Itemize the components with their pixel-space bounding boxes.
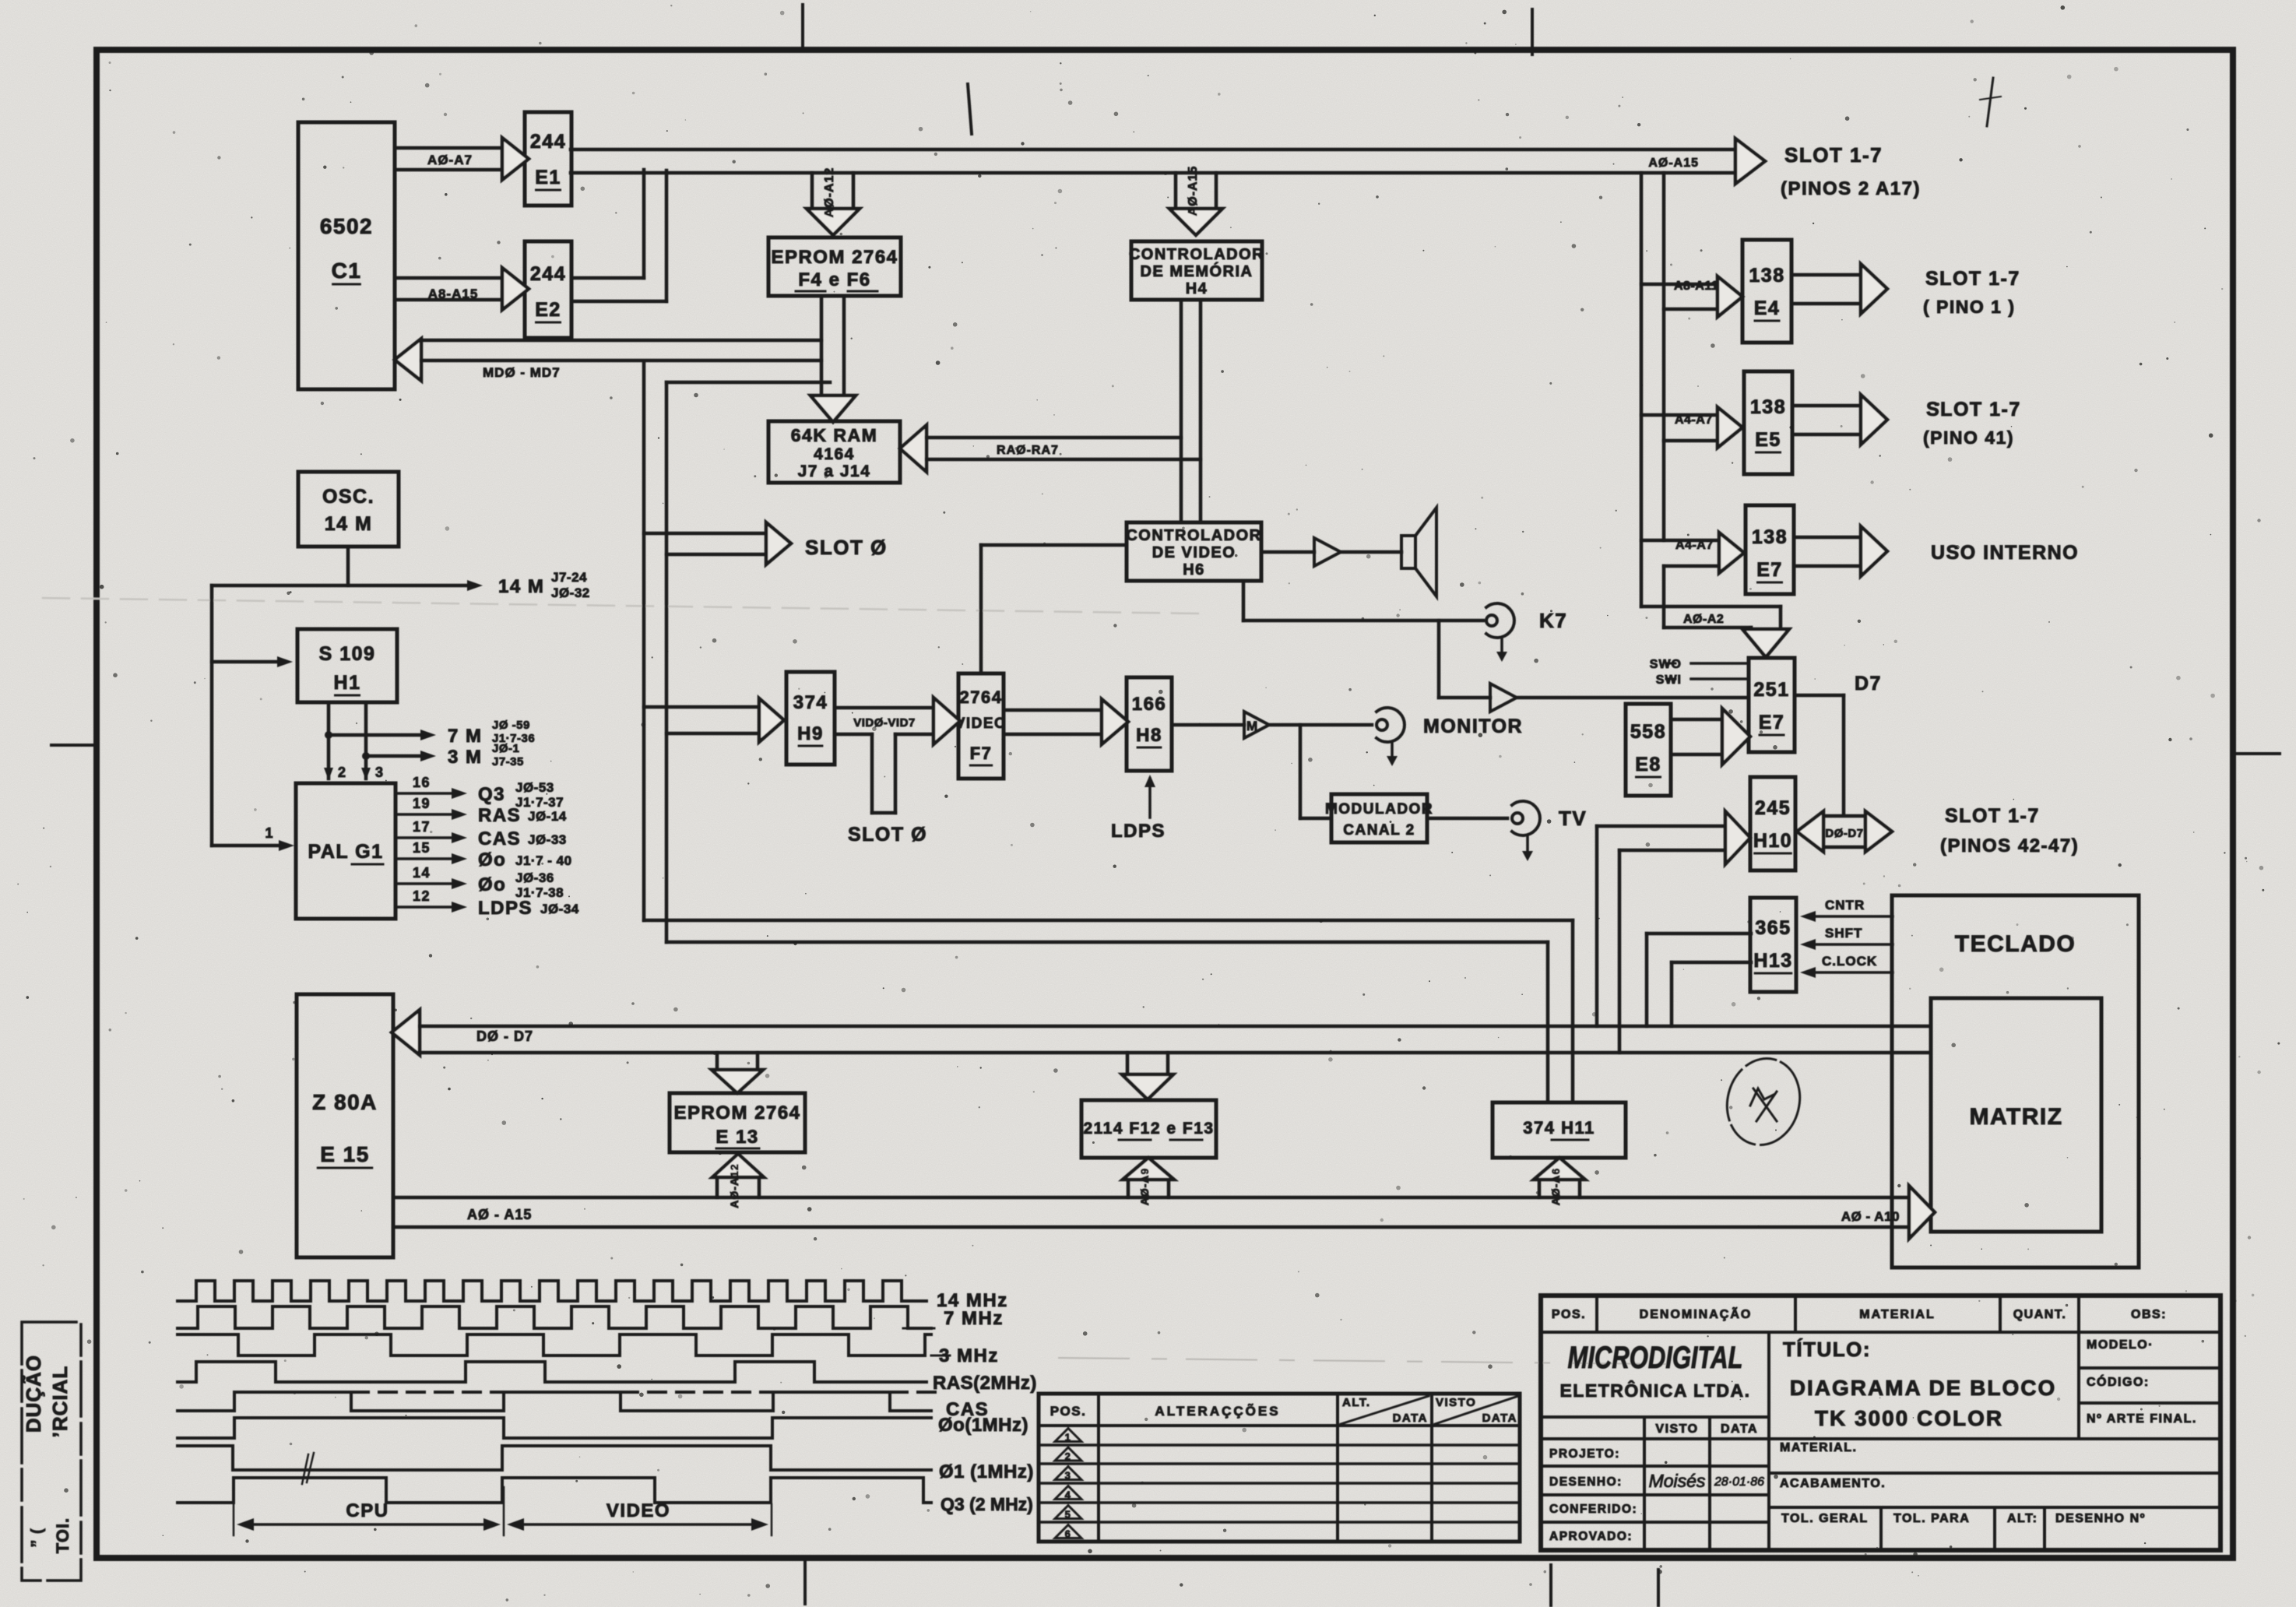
bus F7 to H8 bbox=[1004, 709, 1102, 712]
transceiver 245 H10 bbox=[1750, 777, 1795, 870]
ram 64K 4164 J7-J14 bbox=[768, 421, 900, 483]
svg-text:H10: H10 bbox=[1753, 830, 1792, 852]
svg-text:CONTROLADOR: CONTROLADOR bbox=[1129, 246, 1264, 263]
vertical pair lower bbox=[1662, 566, 1666, 628]
bus A8-A15 6502 to E2 bbox=[395, 276, 502, 280]
svg-text:” (: ” ( bbox=[29, 1528, 46, 1547]
timer 558 E8 bbox=[1626, 704, 1671, 796]
svg-text:EPROM 2764: EPROM 2764 bbox=[673, 1102, 800, 1123]
svg-text:MATERIAL.: MATERIAL. bbox=[1780, 1441, 1857, 1454]
buffer 244 E2 bbox=[525, 241, 571, 338]
waveform RAS bbox=[178, 1362, 926, 1382]
wire amp to 251 bbox=[1517, 696, 1749, 700]
decoder 138 E7 bbox=[1746, 505, 1794, 594]
svg-text:JØ-33: JØ-33 bbox=[528, 832, 567, 847]
svg-text:E5: E5 bbox=[1755, 429, 1781, 451]
wire amp to speaker bbox=[1341, 550, 1401, 554]
waveform Phi1 bbox=[178, 1446, 931, 1470]
pal output RAS pin 19 bbox=[396, 813, 455, 816]
svg-text:E7: E7 bbox=[1756, 559, 1783, 581]
vertical pair continue bbox=[1662, 441, 1666, 540]
svg-text:DØ - D7: DØ - D7 bbox=[476, 1029, 533, 1044]
alteracoes row 2 triangle bbox=[1055, 1447, 1081, 1461]
svg-text:138: 138 bbox=[1752, 526, 1788, 548]
svg-text:RAS: RAS bbox=[478, 805, 521, 826]
wire D7 from 251 bbox=[1795, 694, 1844, 698]
svg-text:D7: D7 bbox=[1855, 673, 1882, 694]
svg-text:E7: E7 bbox=[1759, 712, 1785, 733]
svg-text:AØ-A7: AØ-A7 bbox=[427, 153, 473, 167]
arrow data into 2114 bbox=[1126, 1053, 1130, 1074]
scan streak right of 3MHz bbox=[1059, 1358, 1666, 1364]
dimension CPU bbox=[248, 1523, 490, 1526]
svg-text:Nº ARTE FINAL.: Nº ARTE FINAL. bbox=[2087, 1412, 2197, 1426]
svg-text:VIDEO: VIDEO bbox=[607, 1500, 670, 1521]
svg-text:ACABAMENTO.: ACABAMENTO. bbox=[1780, 1477, 1886, 1490]
wire K7 branch to amp bbox=[1437, 621, 1441, 698]
svg-text:3 M: 3 M bbox=[448, 747, 483, 768]
svg-text:7 MHz: 7 MHz bbox=[944, 1308, 1004, 1329]
decoder 138 E4 bbox=[1742, 240, 1791, 343]
svg-text:H4: H4 bbox=[1186, 280, 1208, 297]
wire S109 pin3 down bbox=[364, 702, 368, 779]
wire modulador to TV bbox=[1427, 817, 1507, 821]
svg-text:DESENHO Nº: DESENHO Nº bbox=[2055, 1512, 2146, 1525]
svg-text:14 M: 14 M bbox=[325, 513, 373, 535]
ram 2114 F12 e F13 bbox=[1081, 1100, 1216, 1158]
slot0 stub below video bus bbox=[870, 734, 874, 813]
svg-text:2: 2 bbox=[338, 765, 347, 780]
svg-text:MATERIAL: MATERIAL bbox=[1859, 1308, 1935, 1321]
svg-text:2114 F12 e F13: 2114 F12 e F13 bbox=[1083, 1120, 1214, 1138]
svg-text:TOI.: TOI. bbox=[53, 1517, 72, 1553]
svg-text:365: 365 bbox=[1755, 917, 1791, 939]
svg-text:CÓDIGO:: CÓDIGO: bbox=[2087, 1374, 2150, 1389]
hand drawn X circle bbox=[1718, 1051, 1809, 1153]
arrow E4 outputs bbox=[1791, 273, 1861, 277]
svg-text:( PINO 1 ): ( PINO 1 ) bbox=[1923, 297, 2016, 317]
svg-text:MONITOR: MONITOR bbox=[1423, 716, 1523, 737]
svg-text:AØ-A15: AØ-A15 bbox=[1648, 156, 1699, 170]
svg-text:E 13: E 13 bbox=[716, 1127, 758, 1148]
centering tick bottom-left bbox=[803, 1560, 807, 1604]
monitor ground bbox=[1391, 743, 1394, 760]
svg-text:ALT:: ALT: bbox=[2007, 1512, 2038, 1525]
junction dots on S109 outputs bbox=[325, 731, 332, 739]
K7 connector bbox=[1486, 603, 1514, 638]
pal output Øo pin 15 bbox=[396, 857, 455, 860]
svg-text:AØ - A10: AØ - A10 bbox=[1841, 1209, 1900, 1224]
svg-text:SHFT: SHFT bbox=[1825, 926, 1862, 941]
svg-text:H9: H9 bbox=[797, 723, 824, 744]
pal output LDPS pin 12 bbox=[396, 905, 455, 909]
svg-text:JØ-32: JØ-32 bbox=[551, 585, 590, 600]
svg-text:H6: H6 bbox=[1183, 561, 1205, 578]
svg-text:2: 2 bbox=[1065, 1451, 1072, 1462]
svg-text:H13: H13 bbox=[1753, 950, 1792, 972]
latch 374 H11 bbox=[1493, 1102, 1626, 1158]
alteracoes header VISTO DATA bbox=[1435, 1396, 1518, 1424]
svg-text:(PINOS 2 A17): (PINOS 2 A17) bbox=[1781, 178, 1921, 199]
speaker symbol bbox=[1401, 536, 1415, 568]
svg-text:558: 558 bbox=[1630, 721, 1666, 743]
svg-text:C1: C1 bbox=[332, 258, 362, 283]
svg-text:E 15: E 15 bbox=[320, 1142, 370, 1166]
wire H6 to speaker amp bbox=[1261, 550, 1314, 554]
svg-text:OBS:: OBS: bbox=[2131, 1308, 2167, 1321]
svg-text:3 MHz: 3 MHz bbox=[939, 1345, 999, 1366]
svg-text:TECLADO: TECLADO bbox=[1955, 931, 2076, 957]
E2 to bus link bbox=[571, 276, 644, 280]
centering tick top-left bbox=[801, 5, 804, 48]
svg-text:374 H11: 374 H11 bbox=[1523, 1118, 1595, 1138]
svg-text:DUÇÃO: DUÇÃO bbox=[22, 1355, 45, 1433]
svg-text:LDPS: LDPS bbox=[1111, 821, 1166, 842]
svg-text:PROJETO:: PROJETO: bbox=[1549, 1447, 1620, 1461]
bus MD0-MD7 into 6502 bbox=[395, 339, 421, 381]
svg-text:Q3 (2 MHz): Q3 (2 MHz) bbox=[941, 1494, 1033, 1514]
svg-text:S 109: S 109 bbox=[319, 643, 376, 665]
svg-text:DENOMINAÇÃO: DENOMINAÇÃO bbox=[1640, 1306, 1753, 1321]
svg-text:244: 244 bbox=[530, 131, 566, 153]
arrow into H9 bbox=[644, 705, 759, 709]
buffer 365 H13 bbox=[1750, 898, 1796, 992]
wire 3M out bbox=[366, 754, 424, 758]
svg-text:E1: E1 bbox=[535, 167, 561, 188]
waveform 14MHz bbox=[178, 1281, 926, 1301]
svg-text:7 M: 7 M bbox=[448, 726, 483, 747]
alteracoes row 3 triangle bbox=[1055, 1467, 1081, 1480]
alteracoes header ALT DATA bbox=[1341, 1396, 1429, 1424]
alteracoes row 4 triangle bbox=[1055, 1486, 1081, 1500]
svg-text:3: 3 bbox=[375, 765, 385, 780]
wire H4 down to H6 bbox=[1180, 300, 1183, 522]
svg-text:VIDEO: VIDEO bbox=[955, 716, 1007, 732]
svg-text:SLOT Ø: SLOT Ø bbox=[848, 824, 927, 846]
underline H11 bbox=[1552, 1139, 1588, 1141]
wire S109 pin2 down bbox=[327, 702, 331, 779]
svg-text:RAØ-RA7: RAØ-RA7 bbox=[997, 444, 1059, 457]
wire 14M distribution bbox=[212, 584, 473, 588]
pal G1 bbox=[296, 783, 396, 919]
waveform Q3 bbox=[178, 1478, 931, 1503]
svg-text:15: 15 bbox=[413, 840, 431, 856]
svg-text:RAS(2MHz): RAS(2MHz) bbox=[933, 1373, 1037, 1394]
CAS dashed level bbox=[351, 1391, 504, 1394]
monitor connector bbox=[1377, 708, 1405, 742]
svg-text:TV: TV bbox=[1559, 807, 1587, 830]
bus vertical to H13 b bbox=[1670, 962, 1674, 1026]
label RAS bbox=[895, 1381, 926, 1384]
svg-text:A4-A7: A4-A7 bbox=[1675, 539, 1714, 552]
underline F4 bbox=[796, 290, 825, 293]
svg-text:AØ-A6: AØ-A6 bbox=[1549, 1168, 1562, 1206]
svg-text:JØ-1: JØ-1 bbox=[492, 742, 519, 755]
svg-text:OSC.: OSC. bbox=[322, 486, 374, 508]
underline G1 bbox=[352, 863, 383, 866]
waveform CAS bbox=[178, 1392, 931, 1411]
arrow LDPS into H8 bbox=[1148, 779, 1152, 818]
svg-text:SLOT 1-7: SLOT 1-7 bbox=[1926, 399, 2021, 420]
bus vertical to H10 left bbox=[1595, 826, 1599, 1026]
bus RA0-RA7 H4 to RAM bbox=[900, 425, 926, 472]
svg-text:DØ-D7: DØ-D7 bbox=[1825, 827, 1863, 840]
stub to E7 138 bbox=[1641, 539, 1719, 543]
svg-text:MODELO·: MODELO· bbox=[2087, 1338, 2154, 1352]
latch 374 H9 bbox=[786, 672, 835, 765]
arrow E5 outputs bbox=[1792, 404, 1861, 408]
keyboard TECLADO bbox=[1892, 895, 2139, 1268]
pal output CAS pin 17 bbox=[396, 836, 455, 839]
arrow data into E13 bbox=[716, 1053, 719, 1070]
svg-text:4: 4 bbox=[1065, 1489, 1072, 1501]
svg-text:12: 12 bbox=[413, 888, 431, 904]
shift register 166 H8 bbox=[1127, 677, 1172, 771]
data bus top line bbox=[420, 1025, 1931, 1029]
dimension guides bbox=[233, 1504, 235, 1535]
svg-text:244: 244 bbox=[530, 263, 566, 285]
svg-text:AØ - A15: AØ - A15 bbox=[467, 1207, 532, 1222]
speaker amp triangle bbox=[1314, 538, 1341, 566]
svg-text:PAL G1: PAL G1 bbox=[308, 841, 384, 863]
svg-text:1: 1 bbox=[265, 825, 274, 841]
svg-text:VISTO: VISTO bbox=[1655, 1422, 1698, 1436]
svg-text:2764: 2764 bbox=[960, 687, 1003, 707]
centering tick top-right bbox=[1531, 9, 1534, 55]
decoder 138 E5 bbox=[1744, 371, 1792, 474]
svg-text:AØ-A2: AØ-A2 bbox=[1683, 613, 1724, 626]
svg-text:16: 16 bbox=[413, 775, 431, 790]
label 3MHz bbox=[931, 1355, 950, 1357]
svg-text:TÍTULO:: TÍTULO: bbox=[1783, 1338, 1871, 1361]
eprom 2764 F4 e F6 bbox=[768, 237, 901, 296]
underline F12 F13 bbox=[1119, 1139, 1151, 1141]
svg-text:CNTR: CNTR bbox=[1825, 898, 1865, 913]
cpu Z80A E15 bbox=[297, 994, 393, 1257]
svg-text:EPROM 2764: EPROM 2764 bbox=[771, 247, 898, 268]
svg-text:E4: E4 bbox=[1754, 297, 1781, 319]
data bus bottom line bbox=[420, 1051, 1931, 1055]
svg-text:JØ-36: JØ-36 bbox=[515, 870, 554, 885]
svg-text:MDØ - MD7: MDØ - MD7 bbox=[483, 365, 561, 380]
svg-text:14: 14 bbox=[413, 865, 431, 881]
svg-text:APROVADO:: APROVADO: bbox=[1549, 1530, 1633, 1543]
svg-text:USO INTERNO: USO INTERNO bbox=[1931, 542, 2079, 564]
svg-text:138: 138 bbox=[1750, 396, 1786, 418]
wire OSC to 14M line bbox=[346, 547, 350, 585]
pen mark near Q3 bbox=[302, 1454, 308, 1484]
wire into S109 bbox=[212, 660, 282, 664]
amp M triangle bbox=[1244, 712, 1269, 738]
title block grid bbox=[1541, 1296, 2220, 1550]
arrow A0-A15 into H4 bbox=[1174, 173, 1178, 209]
keyboard SHFT line bbox=[1809, 943, 1893, 946]
SW1 input bbox=[1691, 677, 1749, 680]
svg-text:SLOT 1-7: SLOT 1-7 bbox=[1925, 268, 2020, 290]
svg-text:17: 17 bbox=[413, 819, 431, 835]
tv connector bbox=[1512, 801, 1540, 835]
tv ground bbox=[1526, 836, 1529, 855]
left loop vertical V1 bbox=[642, 170, 646, 278]
svg-text:AØ-A9: AØ-A9 bbox=[1138, 1168, 1151, 1206]
underline E13 bbox=[716, 1148, 759, 1150]
svg-text:VISTO: VISTO bbox=[1436, 1396, 1476, 1409]
svg-text:A8-A15: A8-A15 bbox=[428, 287, 479, 301]
data bus Z80 arrow bbox=[392, 1010, 420, 1055]
svg-text:Q3: Q3 bbox=[478, 784, 505, 805]
svg-text:E8: E8 bbox=[1635, 754, 1661, 775]
svg-text:CONFERIDO:: CONFERIDO: bbox=[1549, 1503, 1637, 1516]
svg-text:Moisés: Moisés bbox=[1649, 1471, 1706, 1491]
arrow A0-A12 into EPROM F4 bbox=[810, 173, 814, 209]
svg-text:J7 a J14: J7 a J14 bbox=[798, 462, 871, 480]
bus left loop bottom bbox=[644, 919, 1573, 923]
wire left vertical to S109 and PAL bbox=[210, 585, 214, 846]
svg-text:(PINOS 42-47): (PINOS 42-47) bbox=[1940, 835, 2079, 856]
svg-text:Z 80A: Z 80A bbox=[312, 1090, 378, 1114]
svg-text:5: 5 bbox=[1065, 1509, 1072, 1521]
label 7MHz bbox=[903, 1327, 934, 1330]
svg-text:ELETRÔNICA LTDA.: ELETRÔNICA LTDA. bbox=[1559, 1380, 1750, 1401]
addr drop vertical pair bbox=[1640, 173, 1644, 607]
stub to E5 bbox=[1641, 413, 1718, 417]
svg-text:M: M bbox=[1246, 719, 1257, 733]
svg-text:F7: F7 bbox=[970, 744, 993, 763]
svg-text:J7-24: J7-24 bbox=[551, 570, 587, 585]
svg-text:AØ-A15: AØ-A15 bbox=[1187, 166, 1200, 216]
waveform Phi0 bbox=[178, 1418, 931, 1438]
fold artifact line bbox=[43, 598, 1199, 614]
svg-text:DE VIDEO: DE VIDEO bbox=[1152, 544, 1236, 561]
svg-text:Øo(1MHz): Øo(1MHz) bbox=[938, 1415, 1028, 1436]
waveform 3MHz bbox=[178, 1334, 931, 1356]
arrow into H10 bbox=[1597, 825, 1725, 828]
svg-text:J1·7 - 40: J1·7 - 40 bbox=[515, 853, 572, 868]
svg-text:CPU: CPU bbox=[346, 1500, 389, 1521]
svg-text:DESENHO:: DESENHO: bbox=[1549, 1475, 1623, 1489]
svg-text:Øo: Øo bbox=[478, 849, 506, 870]
svg-text:JØ-53: JØ-53 bbox=[515, 780, 554, 795]
svg-text:J7-35: J7-35 bbox=[492, 755, 524, 768]
alteracoes row 1 triangle bbox=[1055, 1429, 1081, 1442]
svg-text:’RCIAL: ’RCIAL bbox=[48, 1366, 72, 1438]
svg-text:166: 166 bbox=[1132, 694, 1167, 715]
oscillator OSC 14M bbox=[298, 472, 399, 547]
elbow A0-A2 into 251 bbox=[1641, 605, 1781, 609]
svg-text:SLOT 1-7: SLOT 1-7 bbox=[1945, 805, 2040, 827]
pal output Øo pin 14 bbox=[396, 882, 455, 885]
svg-text:JØ -59: JØ -59 bbox=[492, 719, 530, 732]
wire H6 to K7 bbox=[1242, 581, 1246, 621]
svg-text:DIAGRAMA DE BLOCO: DIAGRAMA DE BLOCO bbox=[1790, 1376, 2057, 1400]
divider S109 H1 bbox=[297, 629, 397, 702]
svg-text:64K RAM: 64K RAM bbox=[791, 425, 877, 445]
wire M to monitor bbox=[1269, 723, 1372, 727]
wire to modulador bbox=[1299, 725, 1303, 818]
K7 ground bbox=[1500, 638, 1503, 656]
svg-text:DE MEMÓRIA: DE MEMÓRIA bbox=[1141, 262, 1253, 280]
top address bus line lower bbox=[571, 171, 1735, 175]
cpu 6502 C1 bbox=[298, 122, 395, 389]
eprom 2764 E13 bbox=[670, 1093, 805, 1152]
wire F7 top to H6 bbox=[979, 545, 983, 673]
svg-text:MODULADOR: MODULADOR bbox=[1325, 801, 1433, 818]
arrow A0-A9 into 2114 bbox=[1127, 1180, 1130, 1197]
wire 7M out bbox=[329, 733, 424, 737]
svg-text:H8: H8 bbox=[1136, 725, 1162, 746]
bus bottom to H11 bbox=[1546, 942, 1550, 1102]
alteracoes row 6 triangle bbox=[1055, 1525, 1081, 1538]
svg-text:AØ-A12: AØ-A12 bbox=[823, 167, 836, 218]
wire H8 to M amp bbox=[1172, 723, 1244, 727]
svg-text:MATRIZ: MATRIZ bbox=[1969, 1104, 2062, 1130]
svg-text:SLOT 1-7: SLOT 1-7 bbox=[1784, 143, 1883, 167]
svg-text:(PINO 41): (PINO 41) bbox=[1923, 427, 2014, 448]
svg-text:28·01·86: 28·01·86 bbox=[1714, 1475, 1764, 1489]
svg-text:ALTERAÇÇÕES: ALTERAÇÇÕES bbox=[1155, 1403, 1280, 1419]
svg-text:TK 3000 COLOR: TK 3000 COLOR bbox=[1815, 1406, 2003, 1430]
margin stamp box bbox=[22, 1322, 81, 1581]
svg-text:Ø1 (1MHz): Ø1 (1MHz) bbox=[939, 1461, 1034, 1482]
svg-text:AØ-A12: AØ-A12 bbox=[728, 1163, 740, 1208]
svg-text:1: 1 bbox=[1065, 1432, 1072, 1443]
dimension VIDEO bbox=[518, 1523, 758, 1526]
arrow A0-A6 into H11 bbox=[1538, 1180, 1542, 1197]
svg-text:6: 6 bbox=[1065, 1528, 1072, 1540]
svg-text:ALT.: ALT. bbox=[1342, 1396, 1371, 1409]
stray pen mark top-right bbox=[1987, 78, 1993, 126]
svg-text:A8-A11: A8-A11 bbox=[1674, 280, 1718, 293]
underline J7 J14 bbox=[802, 481, 829, 484]
bus A0-A7 6502 to E1 bbox=[395, 146, 502, 150]
SW0 input bbox=[1691, 662, 1749, 665]
svg-text:H1: H1 bbox=[334, 672, 361, 694]
svg-text:J1·7-37: J1·7-37 bbox=[515, 795, 564, 810]
video eprom 2764 F7 bbox=[958, 673, 1004, 779]
cassette amp triangle bbox=[1490, 684, 1517, 712]
svg-text:JØ-14: JØ-14 bbox=[528, 809, 567, 824]
keyboard CNTR line bbox=[1809, 915, 1893, 918]
svg-text:TOL. GERAL: TOL. GERAL bbox=[1781, 1512, 1869, 1525]
svg-text:MICRODIGITAL: MICRODIGITAL bbox=[1568, 1341, 1743, 1375]
modulator canal 2 bbox=[1331, 794, 1427, 842]
svg-text:POS.: POS. bbox=[1050, 1404, 1087, 1419]
memory controller H4 bbox=[1131, 241, 1262, 300]
addr bus top line bbox=[393, 1196, 1909, 1200]
svg-text:6502: 6502 bbox=[320, 214, 373, 238]
label Phi1 bbox=[895, 1469, 931, 1472]
svg-text:K7: K7 bbox=[1539, 609, 1567, 632]
centering tick left bbox=[51, 744, 98, 747]
stub to E4 bbox=[1641, 283, 1718, 287]
wire PAL pin1 input bbox=[212, 844, 284, 848]
keyboard C.LOCK line bbox=[1809, 971, 1893, 974]
svg-text:DATA: DATA bbox=[1482, 1412, 1517, 1425]
svg-text:374: 374 bbox=[793, 692, 828, 713]
selector 251 E7 bbox=[1749, 658, 1795, 752]
svg-text:245: 245 bbox=[1755, 797, 1791, 819]
addr bus bottom line bbox=[393, 1225, 1909, 1229]
svg-text:E2: E2 bbox=[535, 299, 561, 321]
arrow EPROM to RAM bbox=[820, 296, 824, 396]
stray pen mark top-center bbox=[968, 84, 972, 134]
svg-text:14 M: 14 M bbox=[498, 576, 544, 597]
left loop top join V2 bbox=[666, 381, 830, 385]
svg-text:POS.: POS. bbox=[1552, 1308, 1586, 1321]
arrow E7 outputs bbox=[1794, 536, 1861, 540]
svg-text:Øo: Øo bbox=[478, 874, 506, 895]
svg-text:TOL. PARA: TOL. PARA bbox=[1893, 1512, 1970, 1525]
